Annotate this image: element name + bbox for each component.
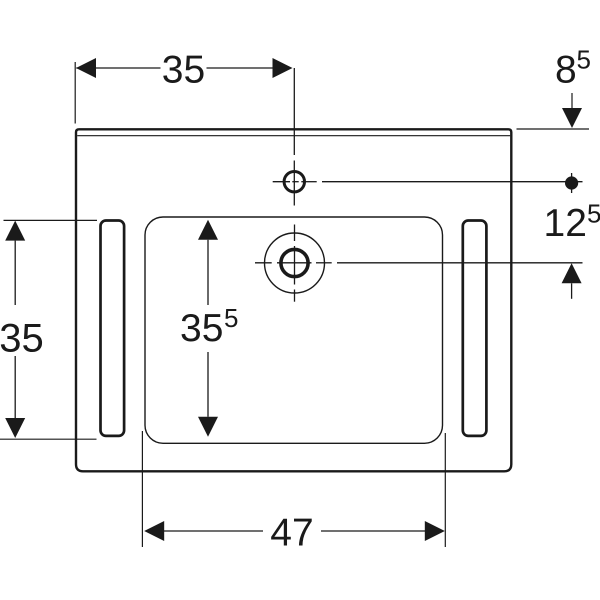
svg-text:47: 47	[270, 512, 313, 555]
svg-text:12: 12	[544, 202, 587, 245]
svg-text:35: 35	[180, 307, 223, 350]
svg-text:8: 8	[555, 49, 577, 92]
svg-text:35: 35	[0, 317, 44, 361]
svg-text:5: 5	[587, 199, 600, 229]
svg-text:5: 5	[224, 303, 238, 333]
svg-text:5: 5	[577, 45, 591, 75]
svg-text:35: 35	[162, 49, 205, 92]
